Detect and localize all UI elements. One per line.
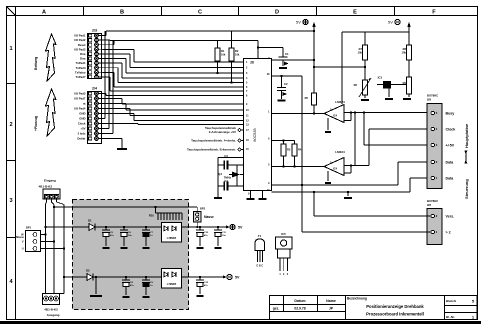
- svg-text:Reset: Reset: [78, 43, 86, 47]
- svg-text:10k: 10k: [402, 51, 407, 55]
- svg-text:Data: Data: [446, 176, 455, 180]
- wire: [121, 139, 123, 149]
- wire: [130, 67, 244, 69]
- svg-text:R7: R7: [359, 47, 363, 51]
- wire U1 to op-amp input: [272, 113, 325, 115]
- svg-text:Busy: Busy: [446, 111, 455, 115]
- svg-text:10k: 10k: [235, 53, 240, 57]
- wire: [122, 103, 244, 105]
- svg-text:R8: R8: [403, 47, 407, 51]
- ground: [143, 296, 150, 298]
- J1 pin 3: [89, 43, 92, 46]
- wire: [113, 72, 115, 87]
- wire: [231, 61, 233, 83]
- wire: [118, 82, 244, 84]
- wire: [105, 31, 107, 36]
- op-amp IC4b ground: [327, 171, 329, 181]
- wire: [103, 76, 111, 78]
- capacitor C11: [217, 226, 219, 228]
- svg-text:2/8: 2/8: [427, 203, 431, 207]
- wire: [117, 68, 119, 83]
- svg-text:80C535: 80C535: [253, 128, 257, 141]
- capacitor C5: [105, 226, 107, 228]
- svg-text:B: B: [120, 9, 124, 15]
- svg-text:> 2: > 2: [446, 230, 451, 234]
- svg-text:R1: R1: [221, 49, 225, 53]
- svg-text:R2: R2: [235, 49, 239, 53]
- J1 pin 9: [89, 71, 92, 74]
- wire: [103, 71, 115, 73]
- second rail: [110, 40, 258, 42]
- svg-text:10u: 10u: [222, 235, 226, 237]
- capacitor C8: [125, 276, 127, 278]
- svg-text:Data: Data: [446, 160, 455, 164]
- ground: [117, 148, 127, 150]
- ground: [103, 247, 110, 249]
- wire to C1: [257, 46, 259, 48]
- ground: [247, 198, 255, 200]
- title block left table: [270, 304, 346, 306]
- wire: [105, 94, 107, 96]
- svg-text:D2: D2: [86, 269, 90, 273]
- wire op-amp supply: [341, 32, 343, 104]
- wire: [106, 95, 244, 97]
- svg-text:3: 3: [9, 198, 12, 204]
- wire: [56, 199, 58, 202]
- svg-text:TxPad3: TxPad3: [76, 66, 86, 70]
- svg-text:C3: C3: [224, 154, 228, 158]
- output terminal +5V: [230, 224, 235, 229]
- connector Ausgang: [43, 294, 60, 305]
- svg-text:2: 2: [9, 122, 12, 128]
- svg-text:L79M05: L79M05: [167, 282, 177, 286]
- +5V rail: [106, 30, 314, 32]
- svg-text:Positionieranzeige Drehbank: Positionieranzeige Drehbank: [366, 304, 424, 309]
- wire: [129, 54, 131, 68]
- J2 pin 6: [89, 117, 92, 120]
- resistor R1: [217, 41, 219, 49]
- J2 pin 5: [89, 112, 92, 115]
- wire: [121, 63, 123, 78]
- frame inner left line: [15, 7, 17, 320]
- svg-text:GND: GND: [79, 112, 85, 116]
- svg-text:+Planzug: +Planzug: [34, 116, 38, 131]
- wires BP1: [41, 234, 46, 236]
- wire +5V to connector: [363, 111, 365, 113]
- svg-text:Vers.: Vers.: [446, 214, 455, 218]
- svg-text:Debitr: Debitr: [77, 137, 86, 141]
- wire: [103, 113, 135, 115]
- svg-text:Blatt-N: Blatt-N: [446, 299, 456, 303]
- wire: [109, 77, 111, 91]
- frame corner diagonal: [7, 7, 16, 16]
- ground: [121, 247, 128, 249]
- wire: [46, 199, 48, 202]
- wire: [103, 35, 107, 37]
- wire BP2 down: [196, 222, 198, 227]
- wire: [108, 41, 110, 129]
- J2 pin 7: [89, 122, 92, 125]
- wire: [129, 109, 131, 116]
- X2 pin 1: [431, 230, 434, 233]
- wire: [103, 123, 139, 125]
- resistor network R10: [156, 212, 183, 214]
- svg-text:47u: 47u: [130, 284, 134, 287]
- wire: [113, 41, 115, 45]
- J2 pin 4: [89, 107, 92, 110]
- J2 pin 1: [89, 92, 92, 95]
- svg-text:C: C: [261, 265, 263, 268]
- power supply shaded box: [73, 200, 189, 310]
- wire: [103, 138, 123, 140]
- regulator IC6: [162, 223, 182, 243]
- resistor R5: [313, 26, 315, 93]
- wire: [133, 114, 135, 121]
- resistor R2: [231, 31, 233, 48]
- ground: [361, 99, 369, 101]
- svg-text:2/8: 2/8: [427, 98, 431, 102]
- wire: [236, 165, 238, 186]
- wire: [103, 53, 131, 55]
- wire: [130, 115, 244, 117]
- svg-text:T1: T1: [258, 234, 262, 238]
- wire: [103, 108, 131, 110]
- wire -5V out: [182, 276, 224, 278]
- svg-text:Eingang: Eingang: [44, 179, 56, 183]
- wire: [63, 205, 65, 294]
- wire: [103, 133, 114, 135]
- svg-text:4B1-B-K2: 4B1-B-K2: [39, 185, 53, 189]
- wire: [122, 77, 244, 79]
- svg-text:I/O Pad3: I/O Pad3: [74, 47, 86, 51]
- svg-text:L78M05: L78M05: [167, 236, 177, 240]
- svg-text:BP1: BP1: [26, 226, 32, 230]
- J1 pin 8: [89, 66, 92, 69]
- wire op-amp2 feedback: [344, 172, 351, 174]
- svg-text:C: C: [198, 9, 202, 15]
- wire: [103, 98, 123, 100]
- ground: [325, 131, 331, 133]
- svg-text:5V: 5V: [388, 20, 393, 25]
- wire: [114, 86, 244, 88]
- capacitor C9: [145, 276, 147, 278]
- resistor R7: [364, 32, 366, 45]
- wire Data1: [272, 184, 399, 186]
- title block Blatt box: [444, 296, 446, 320]
- wire: [133, 49, 135, 62]
- wire: [109, 39, 111, 41]
- svg-text:TxPad1: TxPad1: [76, 61, 86, 65]
- wire Masse feed: [53, 206, 55, 208]
- wire: [134, 61, 244, 63]
- axis arrow Bettweg: [46, 34, 57, 81]
- capacitor C7: [145, 226, 147, 228]
- wire: [103, 44, 115, 46]
- wire mid rail: [314, 66, 365, 68]
- svg-text:IC4: IC4: [333, 167, 338, 171]
- ground: [215, 247, 222, 249]
- U1 bottom pin stubs: [250, 191, 252, 199]
- wire: [104, 31, 106, 119]
- svg-text:BP2: BP2: [200, 207, 206, 211]
- wire: [103, 48, 135, 50]
- wire Clock: [344, 165, 369, 167]
- svg-text:Name: Name: [326, 299, 336, 303]
- resistor R3: [272, 140, 295, 142]
- svg-text:5V: 5V: [238, 226, 243, 230]
- svg-text:Clock: Clock: [78, 122, 86, 126]
- wire: [103, 62, 123, 64]
- svg-text:10k: 10k: [358, 51, 363, 55]
- svg-text:+/-5V: +/-5V: [446, 143, 455, 147]
- wire: [217, 61, 219, 73]
- wire: [53, 205, 55, 294]
- svg-text:10k: 10k: [221, 53, 226, 57]
- wire jogs into Ausgang: [51, 293, 54, 295]
- J2 pin 3: [89, 102, 92, 105]
- capacitor C2: [280, 75, 282, 77]
- wire: [137, 124, 139, 125]
- svg-text:Steuerung: Steuerung: [464, 179, 469, 199]
- svg-text:+5V: +5V: [80, 127, 85, 131]
- capacitor C12: [199, 276, 201, 278]
- J1 pin 10: [89, 75, 92, 78]
- J2 pin 9: [89, 132, 92, 135]
- J2 pin 8: [89, 127, 92, 130]
- svg-text:D1: D1: [88, 219, 92, 223]
- svg-text:Dira: Dira: [80, 52, 86, 56]
- wire: [126, 109, 244, 111]
- svg-text:R5: R5: [305, 96, 309, 100]
- wire: [103, 93, 107, 95]
- X1 pin 1 Data: [431, 176, 434, 179]
- svg-text:02.9.78: 02.9.78: [294, 307, 305, 311]
- wire BP2 up: [196, 207, 198, 212]
- J1 pin 6: [89, 57, 92, 60]
- wire X2 pin1: [301, 184, 303, 186]
- svg-text:GND: GND: [79, 117, 85, 121]
- svg-text:I/O Pad1: I/O Pad1: [74, 34, 86, 38]
- ground: [403, 98, 411, 100]
- output terminal -5V: [227, 274, 232, 279]
- wire: [112, 41, 114, 134]
- J1 pin 7: [89, 62, 92, 65]
- ground: [279, 67, 287, 69]
- wire: [103, 39, 111, 41]
- wire Busy: [344, 112, 431, 114]
- svg-text:Ausgang: Ausgang: [47, 313, 60, 317]
- ground: [214, 197, 222, 199]
- wire op-amp feedback: [344, 120, 351, 122]
- svg-text:TxValue: TxValue: [75, 70, 86, 74]
- svg-text:Clock: Clock: [446, 127, 456, 131]
- svg-text:gez.: gez.: [273, 307, 280, 311]
- ground: [90, 295, 102, 297]
- svg-text:F: F: [432, 9, 436, 15]
- svg-text:Hauptplatine: Hauptplatine: [464, 123, 469, 148]
- svg-text:Q1: Q1: [218, 172, 222, 176]
- frame bottom thick border: [0, 321, 481, 324]
- wire: [110, 90, 244, 92]
- U1 pin 28 stub: [257, 41, 259, 59]
- svg-text:E: E: [353, 9, 357, 15]
- svg-text:IC3: IC3: [378, 76, 383, 80]
- axis arrow Planzug: [46, 89, 57, 136]
- svg-text:I/O Pad3: I/O Pad3: [74, 92, 86, 96]
- svg-text:2/3: 2/3: [92, 29, 97, 33]
- svg-text:47u: 47u: [110, 234, 114, 237]
- svg-text:47u: 47u: [204, 284, 208, 287]
- frame column ticks: [83, 7, 85, 16]
- wire: [51, 199, 53, 202]
- wire X2 pin2: [313, 192, 315, 216]
- title block: [270, 296, 478, 320]
- resistor R4: [294, 141, 296, 145]
- svg-text:5V: 5V: [296, 20, 301, 25]
- svg-text:4B1-B-K2: 4B1-B-K2: [44, 308, 58, 312]
- J1 pin 4: [89, 48, 92, 51]
- 5V minus rail: [342, 31, 409, 33]
- J2 pin 2: [89, 97, 92, 100]
- svg-text:Bezeichnung: Bezeichnung: [347, 297, 367, 301]
- svg-text:R3: R3: [287, 148, 291, 152]
- svg-text:Bettweg: Bettweg: [34, 57, 38, 70]
- svg-text:LM324: LM324: [335, 150, 345, 154]
- svg-text:I/O Pad4: I/O Pad4: [74, 107, 86, 111]
- wire U1 to op-amp2 input: [272, 166, 325, 168]
- ground: [385, 98, 393, 100]
- J1 pin 1: [89, 34, 92, 37]
- svg-text:IC4: IC4: [333, 114, 338, 118]
- svg-text:Tauchspulenmeßtrieb. Erkennest: Tauchspulenmeßtrieb. Erkennestr.: [187, 148, 236, 152]
- ground: [123, 296, 130, 298]
- wire op2 supply: [354, 113, 356, 166]
- svg-text:47u: 47u: [204, 234, 208, 237]
- ground: [259, 198, 267, 200]
- svg-text:Prozessorboard Inkrementell: Prozessorboard Inkrementell: [366, 312, 424, 317]
- trimmer R6: [363, 80, 368, 95]
- svg-text:2/4: 2/4: [92, 87, 97, 91]
- svg-text:C2: C2: [284, 82, 288, 86]
- svg-text:R10: R10: [149, 214, 155, 218]
- svg-text:Datum: Datum: [294, 299, 305, 303]
- ground: [344, 197, 352, 199]
- microcontroller U1: [244, 59, 272, 191]
- wire: [45, 204, 47, 294]
- wire: [103, 118, 106, 120]
- svg-text:R9: R9: [403, 81, 407, 85]
- capacitor C10: [199, 226, 201, 228]
- svg-text:Bl.-Nr.: Bl.-Nr.: [446, 315, 455, 319]
- svg-text:R4: R4: [298, 148, 302, 152]
- svg-text:5V: 5V: [235, 276, 240, 280]
- wire: [103, 58, 127, 60]
- X1 pin 5 Busy: [431, 111, 434, 114]
- svg-text:LM324: LM324: [335, 100, 345, 104]
- ground: [278, 100, 286, 102]
- wire: [121, 99, 123, 105]
- frame inner top line: [7, 15, 478, 17]
- svg-text:Dira: Dira: [80, 57, 86, 61]
- svg-text:2-Achsanzeige +5V: 2-Achsanzeige +5V: [209, 130, 236, 134]
- capacitor C6: [123, 226, 125, 228]
- X1 pin 3 +/-5V: [431, 143, 434, 146]
- svg-text:I/O Pad7: I/O Pad7: [74, 97, 86, 101]
- svg-text:10u: 10u: [128, 235, 132, 237]
- wire: [103, 67, 119, 69]
- resistor R8: [407, 45, 412, 60]
- svg-text:D: D: [275, 9, 279, 15]
- ground: [197, 295, 204, 297]
- svg-text:2 leds: 2 leds: [78, 132, 86, 136]
- ground: [325, 182, 331, 184]
- wire crystal feed: [218, 157, 244, 159]
- op-amp IC4a ground: [327, 118, 329, 130]
- X2 pin 2 Vers: [431, 214, 434, 217]
- wire: [103, 103, 127, 105]
- resistor R9: [407, 77, 412, 94]
- ground: [143, 247, 150, 249]
- wire: [134, 120, 244, 122]
- J2 pin 10: [89, 137, 92, 140]
- svg-text:1: 1: [9, 46, 12, 52]
- wire to op block: [272, 75, 303, 77]
- frame row ticks: [7, 83, 16, 85]
- svg-text:A: A: [42, 9, 46, 15]
- svg-text:TxPad7: TxPad7: [76, 75, 86, 79]
- wire: [125, 59, 127, 74]
- svg-text:R6: R6: [354, 83, 358, 87]
- J1 pin 5: [89, 52, 92, 55]
- wire +5V out: [182, 226, 227, 228]
- svg-text:C1: C1: [285, 52, 289, 56]
- J1 pin 2: [89, 39, 92, 42]
- wire: [138, 124, 244, 126]
- wire Data2: [272, 191, 411, 193]
- wire: [126, 72, 244, 74]
- svg-text:JP: JP: [329, 307, 334, 311]
- X1 pin 4 Clock: [431, 127, 434, 130]
- svg-text:28: 28: [250, 61, 254, 65]
- svg-text:Tauchspulenmeßtrieb. 4=drehz.: Tauchspulenmeßtrieb. 4=drehz.: [191, 139, 236, 143]
- wire: [103, 128, 110, 130]
- wire U1 Vcc to 5V line: [272, 59, 315, 61]
- wire: [125, 104, 127, 111]
- svg-text:IC5: IC5: [281, 232, 286, 236]
- ground stub near connector: [347, 192, 349, 196]
- svg-text:ra: ra: [83, 102, 86, 106]
- svg-text:Masse: Masse: [204, 215, 214, 219]
- ground: [197, 247, 204, 249]
- svg-text:U: U: [22, 248, 24, 251]
- ground input rail: [95, 277, 97, 294]
- regulator IC7: [162, 269, 182, 289]
- svg-text:I/O Pad2: I/O Pad2: [74, 38, 86, 42]
- X1 pin 2 Data: [431, 160, 434, 163]
